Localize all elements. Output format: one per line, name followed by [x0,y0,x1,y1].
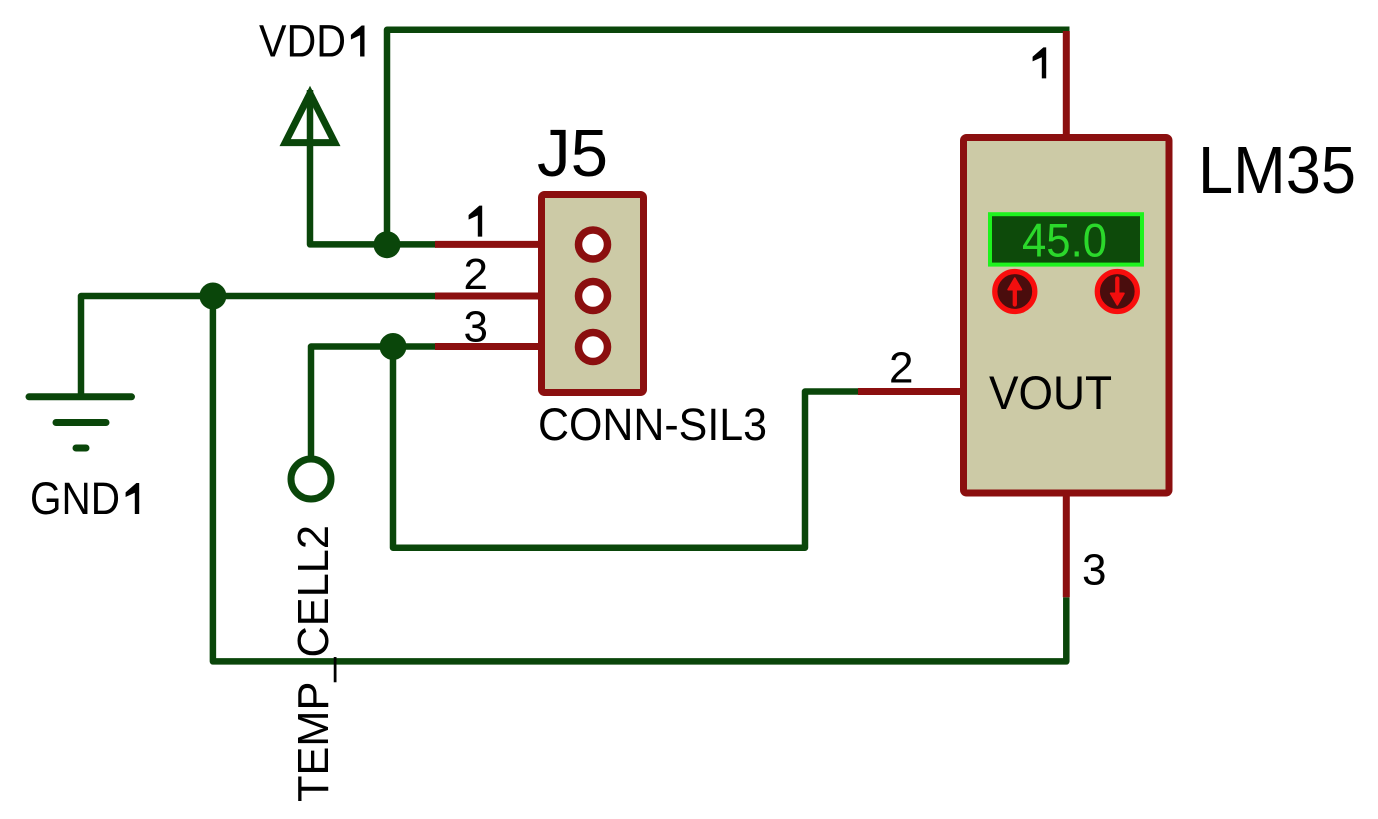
button down [1097,272,1137,312]
pin J5.1 [435,241,586,248]
pin circle J5.1 [579,230,608,259]
wire VDD net: up and across top to LM35 pin 1 [387,30,1070,245]
pin number 1 (J5) [469,206,483,237]
junction GND net [199,283,226,310]
svg-text:VOUT: VOUT [989,366,1112,419]
display 45.0 [990,214,1142,264]
junction TEMP_CELL2 net [380,333,407,360]
pin circle J5.3 [579,333,608,362]
wire TEMP_CELL2 net row3 [311,347,436,459]
pin number 1 (LM35) [1033,47,1047,78]
wire GND net row2 [81,296,436,397]
wire VDD1 stem to junction [310,90,387,244]
svg-text:LM35: LM35 [1198,133,1356,208]
svg-text:2: 2 [464,250,488,299]
connector J5 body [542,195,644,393]
terminal TEMP_CELL2 [291,459,331,499]
ground GND1 symbol [29,397,132,448]
junction at VDD / J5 pin1 [374,231,401,258]
svg-text:45.0: 45.0 [1022,213,1107,266]
pin J5.2 [435,293,586,300]
svg-text:CONN-SIL3: CONN-SIL3 [538,399,767,450]
sensor LM35 body [964,138,1170,494]
svg-text:TEMP_CELL2: TEMP_CELL2 [289,525,338,802]
wire GND net down and across bottom to LM35 pin 3 [213,296,1066,661]
svg-text:J5: J5 [537,116,608,191]
wire row1 green stub to J5 pin 1 [387,241,436,248]
pin J5.3 [435,343,586,350]
pin LM35.3 [1063,493,1070,597]
svg-text:GND: GND [30,473,120,524]
power symbol VDD1 arrow [285,94,335,143]
svg-text:3: 3 [464,302,488,351]
pin circle J5.2 [579,282,608,311]
pin LM35.2 [858,388,963,395]
svg-text:2: 2 [889,344,913,393]
svg-text:3: 3 [1082,546,1106,595]
wire TEMP_CELL2 net down across and up to LM35 pin 2 [393,347,858,548]
button up [995,272,1035,312]
pin LM35.1 [1063,31,1070,140]
svg-text:VDD: VDD [259,16,346,67]
